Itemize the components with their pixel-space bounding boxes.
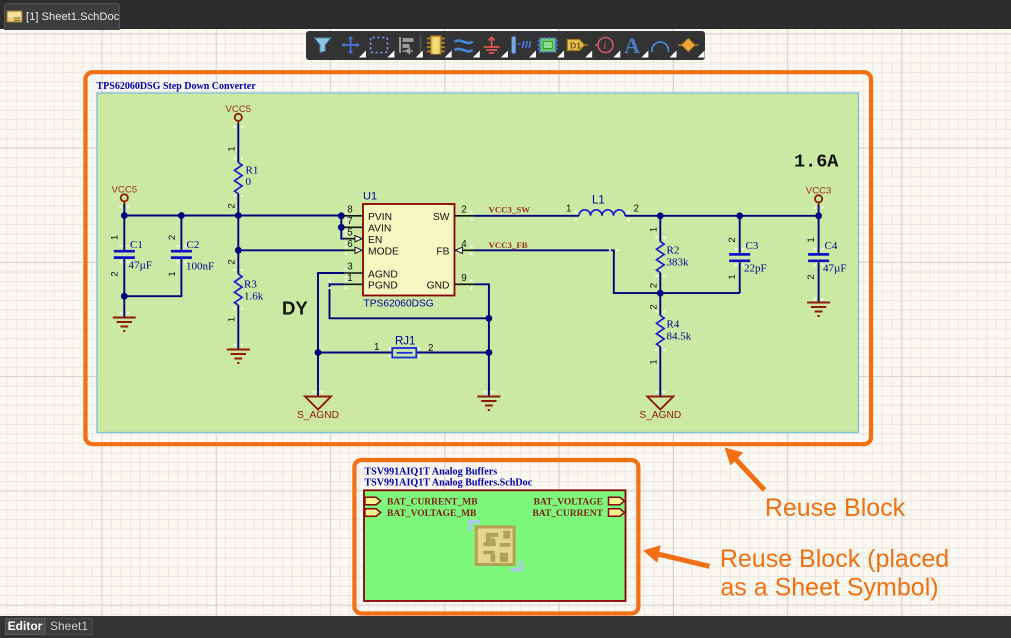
svg-text:100nF: 100nF [186,261,214,273]
U1 pin lines [344,216,475,284]
svg-text:VCC3: VCC3 [806,186,832,197]
svg-text:47µF: 47µF [129,260,152,272]
svg-text:TPS62060DSG: TPS62060DSG [364,299,434,310]
floating toolbar [306,31,705,60]
capacitor C2 [171,251,192,257]
toolbar icon: power port [484,37,500,53]
toolbar icon: place part [427,36,445,54]
svg-text:1.6A: 1.6A [794,152,839,173]
svg-text:1: 1 [566,204,571,215]
svg-text:R3: R3 [244,279,257,291]
sheet entry BAT_CURRENT_MB [365,497,381,504]
svg-text:Reuse Block: Reuse Block [765,494,906,522]
svg-text:BAT_CURRENT: BAT_CURRENT [532,509,603,519]
toolbar icon: filter funnel [315,38,331,53]
wire R3 to gnd [237,305,239,348]
svg-text:RJ1: RJ1 [395,336,415,348]
blueprint green region [97,93,859,433]
U1 pin names [368,212,450,292]
svg-text:TSV991AIQ1T Analog Buffers: TSV991AIQ1T Analog Buffers [364,467,497,478]
svg-text:1: 1 [167,271,178,276]
svg-text:MODE: MODE [368,247,399,258]
wire R4 top [659,293,661,315]
annotation arrow 1 [736,459,765,490]
sheet icon placeholder [470,522,521,570]
svg-text:GND: GND [427,281,450,292]
svg-text:C4: C4 [825,240,838,252]
svg-text:S_AGND: S_AGND [297,410,339,421]
resistor R3 [235,274,243,305]
svg-text:BAT_VOLTAGE_MB: BAT_VOLTAGE_MB [387,509,477,519]
toolbar icon: select rectangle [371,38,388,53]
wire VCC5L to rail [123,204,125,216]
svg-text:3: 3 [347,262,353,273]
wire C1 bottom [124,259,181,296]
svg-text:2: 2 [461,205,466,216]
wire R4 to S_AGND [659,347,661,396]
svg-text:2: 2 [727,237,738,242]
reuse block orange frame (sheet symbol) [354,460,638,614]
svg-text:TSV991AIQ1T Analog Buffers.Sch: TSV991AIQ1T Analog Buffers.SchDoc [364,478,532,489]
power port VCC5 (top, over R1) [235,114,242,124]
svg-text:PVIN: PVIN [368,212,392,223]
wire R2 top [659,216,661,242]
svg-text:VCC3_SW: VCC3_SW [489,204,531,214]
wire C3 bottom [739,262,741,293]
toolbar dropdown marks [359,51,705,58]
svg-text:R1: R1 [246,165,259,177]
toolbar icon: arc [652,42,668,52]
toolbar icon: sheet symbol [538,38,558,52]
svg-text:C2: C2 [187,239,200,251]
wire L1 to VCC3 [625,215,819,217]
wire C4 branch [818,216,820,253]
ground S_AGND (right) [647,397,673,410]
wire SW to L1 [475,215,580,217]
toolbar separator [420,35,422,56]
svg-text:EN: EN [368,235,382,246]
svg-text:FB: FB [436,247,449,258]
top document tab bar [0,0,1011,29]
svg-text:R4: R4 [667,319,680,331]
capacitor C3 [729,254,750,260]
svg-text:as a Sheet Symbol): as a Sheet Symbol) [720,574,938,602]
node rail-R2 [657,212,664,219]
capacitor C4 [808,254,829,260]
svg-text:47µF: 47µF [823,263,846,275]
sheet entry BAT_CURRENT [609,509,625,516]
svg-text:8: 8 [347,205,353,216]
svg-text:C3: C3 [746,240,759,252]
node R3-MODE [235,247,242,254]
toolbar icon: text string A [624,33,640,58]
IC U1 (TPS62060DSG) [363,204,455,296]
bottom bar [0,616,1011,638]
svg-text:1: 1 [110,235,121,240]
sheet entry BAT_VOLTAGE_MB [365,509,381,516]
power port VCC3 [815,195,822,205]
resistor R4 [657,316,665,347]
resistor R2 [657,242,665,273]
capacitor C1 [114,251,135,257]
U1 pin numbers [347,205,467,285]
svg-text:2: 2 [428,343,433,354]
wire MODE [238,249,344,251]
wire snap markers [119,126,823,393]
svg-text:1: 1 [649,227,660,232]
node FB-R2-R4 [657,290,664,297]
node rail-C1 [121,212,128,219]
svg-text:1: 1 [347,273,352,284]
annotation arrow 2 [657,554,710,567]
wire bottom rail to C3 [660,292,739,294]
node C1-C2 bottom [121,293,128,300]
wire VCC3 stem [818,205,820,216]
svg-text:6: 6 [347,239,353,250]
node pin7 [338,224,345,231]
svg-text:TPS62060DSG Step Down Converte: TPS62060DSG Step Down Converter [97,81,257,92]
svg-text:VCC3_FB: VCC3_FB [489,240,528,250]
svg-text:2: 2 [634,204,639,215]
ground (R3) [227,350,250,364]
toolbar icon: junction [678,39,698,52]
svg-text:U1: U1 [363,191,377,203]
power port VCC5 (left) [121,194,128,204]
wire C3 branch [739,216,741,253]
svg-text:BAT_CURRENT_MB: BAT_CURRENT_MB [387,498,478,508]
node rail-C3 [736,212,743,219]
svg-text:VCC5: VCC5 [112,185,138,196]
ground (C1) [113,318,136,332]
svg-text:0: 0 [246,176,252,188]
svg-text:VCC5: VCC5 [226,104,252,115]
svg-text:SW: SW [433,212,450,223]
node rail-pin8 [338,212,345,219]
resistor R1 [235,163,243,194]
svg-text:5: 5 [347,228,353,239]
wire gnd stem C1 [123,296,125,316]
svg-text:2: 2 [649,283,660,288]
svg-text:1: 1 [806,237,817,242]
svg-text:2: 2 [649,304,660,309]
svg-text:Reuse Block (placed: Reuse Block (placed [720,545,949,573]
svg-text:L1: L1 [592,195,605,207]
wire FB [475,250,661,293]
svg-text:C1: C1 [130,239,143,251]
toolbar icon: move cross [342,36,360,54]
wire R2 bottom [659,273,661,293]
node rail-C4 [815,212,822,219]
toolbar icon: port D1 [567,40,588,51]
node GND9-RJ rail [486,349,493,356]
ground (GND9) [477,397,500,411]
svg-text:AGND: AGND [368,269,398,280]
wire RJ rail [318,352,489,354]
svg-text:1: 1 [227,317,238,322]
svg-text:R2: R2 [667,245,680,257]
svg-text:1: 1 [227,146,238,151]
svg-text:22pF: 22pF [744,263,767,275]
svg-text:AVIN: AVIN [368,224,391,235]
ground (C4) [807,303,830,317]
toolbar icon: net label [512,37,531,54]
svg-text:BAT_VOLTAGE: BAT_VOLTAGE [534,498,603,508]
wire R1 to rail [237,194,239,216]
svg-text:2: 2 [227,203,238,208]
svg-text:1: 1 [374,342,379,353]
svg-text:9: 9 [461,273,466,284]
ground S_AGND (left) [305,397,331,410]
jumper RJ1 [392,348,416,358]
svg-text:2: 2 [227,259,238,264]
toolbar icon: no-ERC [595,38,613,53]
node rail-C2 [178,212,185,219]
sheet symbol U2 [364,490,626,601]
svg-text:S_AGND: S_AGND [639,410,681,421]
svg-text:7: 7 [347,216,352,227]
svg-text:PGND: PGND [368,281,398,292]
wire C4 to gnd [818,262,820,301]
wire GND9 down [475,284,489,396]
wire R3 branch [237,216,239,275]
svg-text:84.5k: 84.5k [667,331,692,343]
svg-text:2: 2 [110,271,121,276]
wire AGND [318,273,344,353]
node rail-R1R3 [235,212,242,219]
node PGND-GND9 [486,315,493,322]
toolbar icon: align [400,37,414,54]
wire left to S_AGND [317,353,319,397]
toolbar icon: wire [455,41,473,52]
wire PGND [330,284,489,318]
svg-text:383k: 383k [667,257,690,269]
svg-text:1: 1 [727,274,738,279]
wire C2 branch [180,216,182,251]
wire pin8 to pin7/EN [341,216,344,239]
reuse block orange frame (top) [86,72,872,444]
sheet entry BAT_VOLTAGE [609,497,625,504]
U1 input arrows EN/MODE/FB [355,236,463,254]
node AGND-RJ rail [315,349,322,356]
svg-text:DY: DY [282,298,308,319]
wire VCC5 to R1 [237,124,239,163]
svg-text:2: 2 [806,274,817,279]
inductor L1 [579,210,625,216]
wire C1 branch [123,216,125,251]
svg-text:1.6k: 1.6k [244,291,264,303]
svg-text:2: 2 [167,235,178,240]
wire main rail left [124,215,341,217]
svg-text:1: 1 [649,359,660,364]
